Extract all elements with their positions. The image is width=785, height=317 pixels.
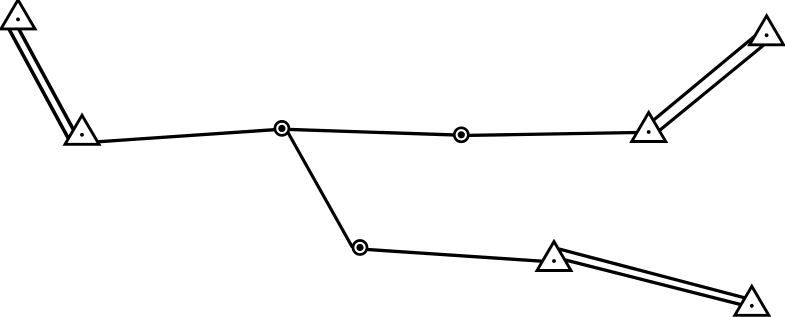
double line T6-T7 [556, 248, 748, 305]
station T2 (triangle station) [65, 115, 99, 144]
node C2 (circled-dot node) [454, 128, 468, 142]
double line T1-T2 [5, 18, 78, 143]
station T1 (triangle station) [1, 0, 35, 29]
wire C1-C3 [286, 129, 353, 248]
station T5 (triangle station) [750, 16, 784, 45]
station T4 (triangle station) [632, 113, 666, 142]
wire C2-T4 [461, 132, 650, 135]
node C1 (circled-dot node) [275, 121, 289, 135]
station T7 (triangle station) [735, 286, 769, 315]
station T6 (triangle station) [537, 242, 571, 271]
wire T2-C1 [90, 129, 282, 142]
node C3 (circled-dot node) [353, 241, 367, 255]
double line T4-T5 [652, 36, 764, 133]
wire C3-T6 [360, 249, 554, 262]
wire C1-C2 [282, 129, 461, 135]
